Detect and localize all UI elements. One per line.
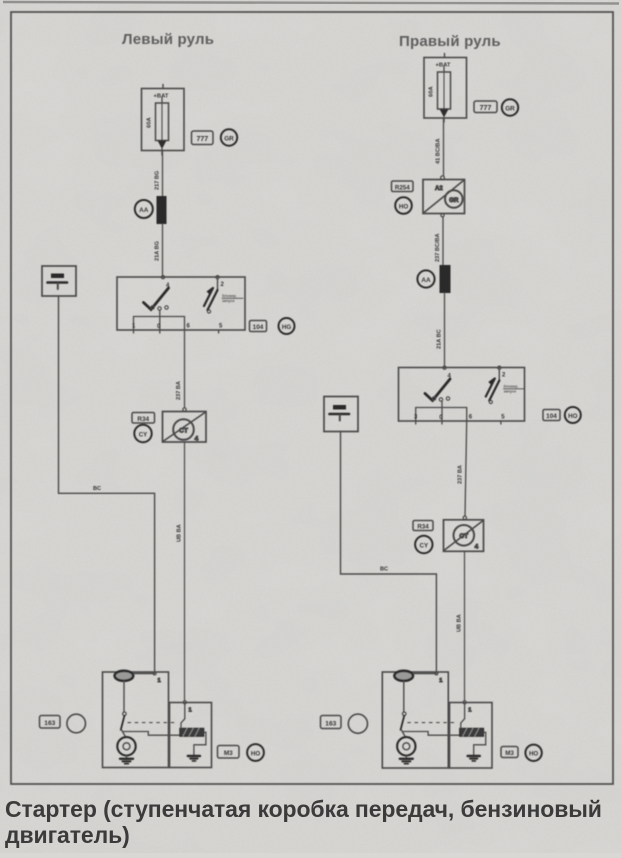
svg-text:GR: GR	[505, 105, 515, 112]
splice (left, black block)	[157, 196, 167, 224]
wire 237 BA (right, ignition to R34)	[458, 421, 467, 516]
label 104 (right ignition switch tag)	[543, 410, 560, 421]
solenoid contact oval	[394, 671, 413, 681]
bottom pin ticks	[133, 330, 135, 333]
svg-text:237 BC/BA: 237 BC/BA	[435, 233, 441, 262]
svg-text:60A: 60A	[429, 86, 435, 97]
svg-text:UB BA: UB BA	[457, 614, 463, 632]
svg-text:HG: HG	[282, 324, 291, 331]
svg-text:AA: AA	[421, 277, 431, 284]
svg-text:двигатель): двигатель)	[5, 822, 130, 848]
svg-text:AA: AA	[139, 207, 149, 214]
svg-text:217 BG: 217 BG	[155, 171, 161, 190]
connector code HO (right R254)	[395, 197, 412, 214]
svg-text:104: 104	[253, 324, 264, 331]
svg-text:M3: M3	[224, 750, 233, 757]
wire 237 BA (left, ignition to R34)	[176, 330, 185, 408]
ground code HO (left starter)	[247, 744, 264, 761]
svg-text:CT: CT	[179, 427, 188, 434]
svg-text:R34: R34	[417, 524, 429, 531]
starter 163 (right)	[382, 671, 492, 768]
pin 1 wire into coil	[463, 701, 466, 704]
svg-text:HO: HO	[568, 413, 577, 420]
ignition switch box (left)	[117, 276, 245, 333]
svg-text:R254: R254	[395, 184, 410, 191]
solenoid contact oval	[115, 671, 134, 681]
svg-text:4: 4	[475, 544, 479, 551]
bottom bracket	[134, 317, 185, 331]
svg-text:21A BG: 21A BG	[155, 241, 161, 261]
svg-text:21A BC: 21A BC	[437, 329, 443, 349]
title: Правый руль	[399, 33, 501, 50]
svg-text:CY: CY	[139, 431, 148, 438]
pin 1 wire into coil	[183, 701, 186, 704]
svg-text:HO: HO	[399, 203, 408, 210]
wire UB BA (left, R34 to starter)	[177, 442, 185, 700]
svg-text:BC: BC	[380, 567, 388, 573]
svg-text:GR: GR	[449, 197, 459, 204]
wire 41 BC/BA (right, fuse to R254)	[436, 118, 444, 176]
label R34 (right)	[413, 521, 433, 531]
svg-text:60A: 60A	[147, 117, 153, 128]
title: Левый руль	[122, 31, 214, 48]
battery feed BB (left)	[42, 266, 76, 296]
svg-text:запуск: запуск	[222, 298, 235, 303]
mechanical link (dashed)	[408, 722, 455, 724]
contact check-mark (left switch)	[144, 288, 169, 310]
contact check-mark (right box)	[425, 379, 450, 401]
connector code CY (left R34)	[134, 425, 151, 442]
label 163 (right starter)	[321, 716, 342, 729]
scan page edge (top)	[3, 2, 619, 4]
fuse box (right, 60A supply)	[424, 54, 467, 123]
mechanical link (dashed)	[128, 722, 175, 724]
label 104 (left ignition switch tag)	[250, 321, 267, 332]
label R34 (left)	[132, 413, 155, 424]
key switch blade (right side)	[217, 279, 219, 290]
wire 237 BC/BA (right, R254 to splice)	[435, 217, 443, 265]
svg-text:Левый руль: Левый руль	[122, 31, 214, 48]
coil to ground wire	[474, 732, 486, 755]
component circle (left starter, empty)	[67, 714, 86, 733]
link to motor and coil	[122, 730, 126, 738]
svg-text:A2: A2	[435, 186, 443, 192]
svg-text:BC: BC	[93, 486, 101, 492]
solenoid coil (hatched)	[180, 728, 204, 736]
link to motor and coil	[401, 730, 405, 738]
connector code GR (left fuse)	[221, 129, 237, 145]
svg-text:+BAT: +BAT	[154, 94, 169, 100]
connector code HG (left ignition)	[279, 318, 295, 334]
connector code CY (right R34)	[415, 536, 432, 553]
svg-text:237 BA: 237 BA	[176, 381, 182, 400]
label M3 (left starter ground tag)	[218, 746, 240, 759]
svg-text:Стартер (ступенчатая коробка п: Стартер (ступенчатая коробка передач, бе…	[5, 796, 602, 822]
node AA (right)	[417, 270, 434, 287]
coil to ground wire	[194, 732, 206, 755]
svg-text:CT: CT	[459, 533, 468, 540]
svg-text:4: 4	[195, 436, 199, 443]
svg-text:777: 777	[480, 105, 492, 112]
ground (left starter motor)	[126, 756, 128, 759]
node AA (left)	[135, 200, 153, 218]
wire BC (left, battery to starter)	[59, 296, 155, 672]
label M3 (right starter ground tag)	[501, 747, 518, 758]
splice (right, black block)	[440, 265, 451, 293]
svg-text:HO: HO	[251, 750, 260, 757]
wire 217 BG (left, fuse to splice)	[155, 151, 163, 196]
svg-text:104: 104	[546, 413, 557, 420]
ground (left starter coil)	[188, 755, 200, 757]
bottom pin ticks	[415, 421, 417, 424]
ground code HO (right starter)	[525, 745, 541, 761]
label 163 (left starter)	[40, 716, 61, 729]
key switch blade (right side)	[498, 370, 500, 381]
connector code GR (right fuse)	[502, 99, 518, 115]
svg-text:GR: GR	[224, 135, 234, 142]
svg-text:41 BC/BA: 41 BC/BA	[436, 139, 442, 165]
svg-text:237 BA: 237 BA	[458, 465, 464, 484]
ignition switch box (right)	[399, 366, 525, 424]
wire 21A BG (left, splice to ignition switch)	[155, 224, 163, 277]
label 777 (right fuse tag)	[474, 101, 497, 113]
svg-text:777: 777	[196, 136, 208, 143]
svg-text:Правый руль: Правый руль	[399, 33, 501, 50]
label 777 (left fuse tag)	[192, 131, 214, 145]
wire BC (right, battery to starter)	[341, 432, 437, 673]
label R254 (right)	[392, 181, 414, 192]
svg-text:запуск: запуск	[504, 389, 517, 394]
connector R34 (left)	[163, 408, 207, 443]
connector R34 (right)	[444, 516, 484, 551]
wire UB BA (right, R34 to starter)	[457, 551, 465, 700]
solenoid coil (hatched)	[460, 728, 484, 736]
svg-text:+BAT: +BAT	[436, 63, 451, 69]
ground (right starter motor)	[405, 756, 407, 759]
wire 21A BC (right, splice to ignition switch)	[437, 293, 445, 368]
ground (right starter coil)	[468, 755, 480, 757]
main contact	[403, 681, 405, 712]
svg-text:163: 163	[325, 720, 336, 727]
svg-text:HO: HO	[529, 751, 538, 758]
svg-text:UB BA: UB BA	[177, 524, 183, 542]
battery feed BB (right)	[324, 397, 358, 432]
starter 163 (left)	[103, 671, 212, 768]
fuse box (left, 60A supply)	[142, 85, 185, 156]
svg-text:CY: CY	[419, 542, 428, 549]
motor	[397, 737, 415, 755]
connector code HO (right ignition)	[565, 407, 581, 423]
main contact	[123, 681, 125, 712]
connector R254 (right)	[423, 176, 465, 217]
svg-text:R34: R34	[137, 416, 149, 423]
motor	[117, 737, 135, 755]
svg-text:M3: M3	[505, 750, 514, 757]
bottom bracket	[416, 408, 467, 422]
svg-text:163: 163	[44, 720, 55, 727]
component circle (right starter, empty)	[348, 714, 367, 733]
